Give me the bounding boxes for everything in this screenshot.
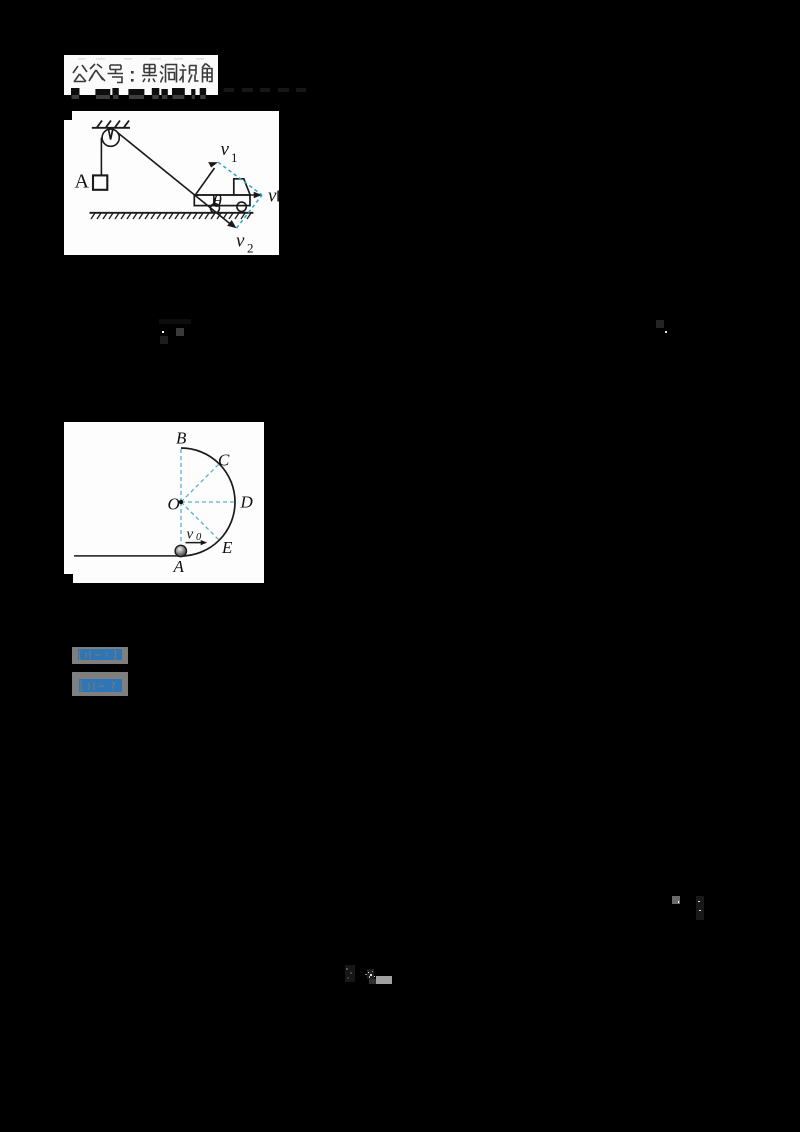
svg-text:v: v	[187, 527, 194, 543]
svg-text:B: B	[176, 429, 187, 448]
svg-text:A: A	[173, 557, 185, 576]
svg-text:C: C	[218, 451, 230, 470]
svg-text:0: 0	[196, 532, 202, 543]
svg-text:O: O	[168, 495, 180, 514]
svg-text:E: E	[221, 538, 233, 557]
svg-text:D: D	[240, 493, 254, 512]
